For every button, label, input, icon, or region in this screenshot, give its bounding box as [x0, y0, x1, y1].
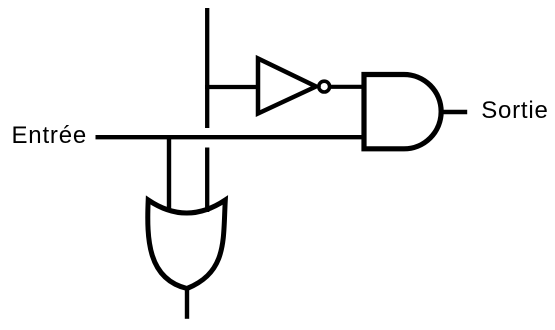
and-gate U2 [364, 75, 441, 149]
wire bubble to AND gate [330, 85, 364, 89]
inverter U1 bubble [319, 81, 330, 92]
or-gate U3 (pointing down) [148, 200, 226, 289]
wire OR output [185, 286, 189, 319]
wire right vertical to OR gate input B (lower segment) [205, 148, 209, 213]
node label Sortie (output net) [481, 97, 549, 125]
node label Entrée (input net) [12, 122, 88, 150]
wire Entrée horizontal [96, 135, 365, 139]
wire top vertical (upper segment, crosses Entrée wire without connection) [205, 8, 209, 128]
wire AND output [441, 110, 467, 114]
wire inverter input tap [205, 85, 258, 89]
wire left vertical to OR gate input A [167, 137, 171, 212]
inverter U1 triangle [258, 59, 316, 114]
